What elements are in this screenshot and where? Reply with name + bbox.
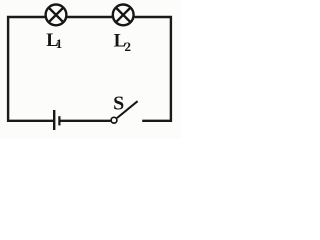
svg-text:2: 2 bbox=[125, 39, 132, 54]
lamp L2 bbox=[113, 5, 134, 26]
lamp L1 bbox=[46, 5, 67, 26]
wire top middle bbox=[67, 16, 113, 18]
switch lever bbox=[117, 101, 138, 118]
wire right side loop bbox=[134, 17, 171, 121]
switch pivot circle bbox=[111, 117, 117, 123]
battery long plate bbox=[53, 110, 55, 130]
svg-text:S: S bbox=[113, 92, 124, 114]
wire left side loop bbox=[8, 17, 53, 121]
wire switch to battery bbox=[60, 120, 111, 122]
svg-text:1: 1 bbox=[56, 36, 63, 51]
battery short plate bbox=[58, 116, 60, 125]
